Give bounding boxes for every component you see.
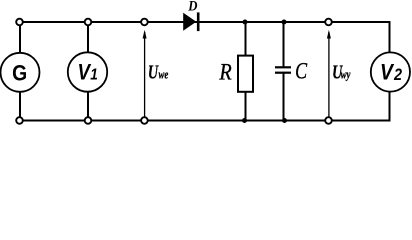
wire V1 branch bottom: [87, 92, 89, 121]
node input bottom terminal: [141, 117, 148, 124]
wire C branch top: [283, 22, 285, 67]
svg-text:we: we: [159, 68, 169, 82]
node input top terminal: [141, 19, 148, 26]
node junction C bottom: [282, 118, 287, 123]
wire V1 branch top: [87, 22, 89, 53]
wire Uwy arrow: [328, 32, 330, 117]
generator G: [1, 53, 40, 92]
svg-text:D: D: [187, 0, 197, 15]
resistor R: [238, 56, 253, 92]
node V1 bottom terminal: [85, 117, 92, 124]
voltmeter V2: [371, 52, 410, 91]
wire right vertical top (to V2): [389, 21, 391, 53]
svg-text:2: 2: [393, 66, 402, 84]
wire C branch bottom: [283, 73, 285, 121]
svg-text:C: C: [295, 60, 307, 85]
capacitor C: [275, 66, 291, 68]
svg-text:V: V: [380, 60, 395, 84]
voltmeter V1: [68, 52, 107, 91]
wire top rail: [20, 21, 391, 23]
node output top terminal: [325, 19, 332, 26]
node junction R top: [243, 20, 248, 25]
node output bottom terminal: [325, 117, 332, 124]
wire R branch bottom: [245, 92, 247, 121]
svg-text:U: U: [148, 61, 160, 83]
wire R branch top: [245, 22, 247, 56]
svg-text:wy: wy: [341, 68, 351, 82]
node junction R bottom: [242, 118, 247, 123]
node V1 top terminal: [85, 19, 92, 26]
wire G branch top: [19, 22, 21, 53]
svg-text:R: R: [218, 60, 231, 85]
svg-text:G: G: [12, 61, 27, 85]
wire G branch bottom: [19, 92, 21, 121]
node G bottom terminal: [16, 117, 23, 124]
svg-text:1: 1: [90, 67, 98, 84]
node junction C top: [282, 20, 287, 25]
wire right vertical bottom (from V2): [389, 92, 391, 122]
diode D: [183, 13, 196, 31]
wire bottom rail: [20, 120, 391, 122]
node G top terminal: [16, 19, 23, 26]
wire Uwe arrow: [144, 32, 146, 117]
